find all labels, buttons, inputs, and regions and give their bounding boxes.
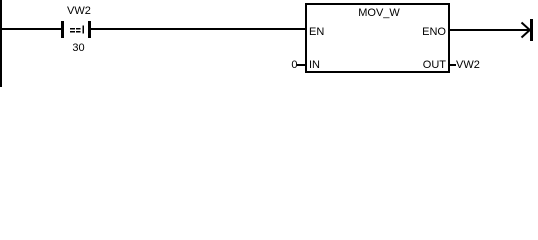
function block U1 MOV_W box outline — [305, 3, 450, 5]
continuation arrow — [522, 19, 534, 41]
svg-text:OUT: OUT — [423, 59, 447, 71]
OUT pin stub wire — [449, 64, 456, 66]
IN pin stub wire — [297, 64, 306, 66]
wire: ENO to continuation arrow — [449, 29, 530, 31]
svg-text:30: 30 — [72, 42, 84, 54]
wire: contact to MOV_W box — [91, 28, 306, 30]
contact left bar — [61, 21, 64, 38]
wire: rail to contact — [0, 28, 61, 30]
svg-text:VW2: VW2 — [456, 59, 480, 71]
svg-text:EN: EN — [309, 26, 324, 38]
svg-text:IN: IN — [309, 59, 320, 71]
svg-text:VW2: VW2 — [67, 5, 91, 17]
contact right bar — [88, 21, 91, 38]
svg-text:MOV_W: MOV_W — [358, 7, 400, 19]
left power rail — [0, 0, 2, 87]
svg-text:ENO: ENO — [422, 26, 446, 38]
contact operator text ==I — [70, 25, 84, 33]
svg-text:0: 0 — [291, 59, 297, 71]
